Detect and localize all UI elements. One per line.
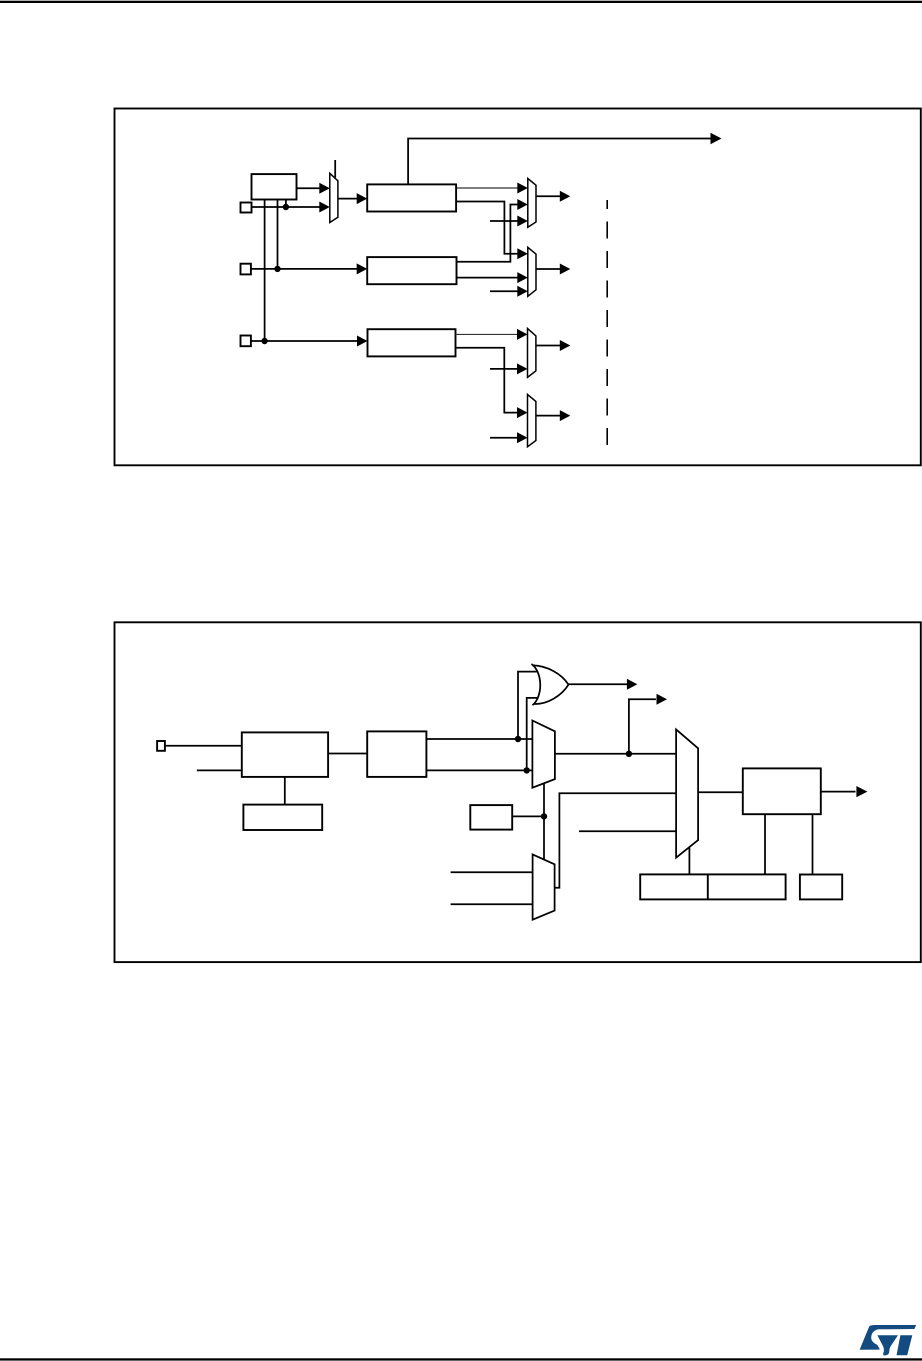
junction dot mux A output branch	[626, 751, 632, 757]
mux M2	[528, 247, 536, 296]
wire mux M2 output	[536, 268, 561, 270]
wire mux C output to box E	[698, 791, 743, 793]
figure 2 frame	[115, 622, 921, 962]
arrowhead M3 in1	[517, 329, 528, 340]
arrowhead M4 in1	[517, 407, 528, 418]
wire box DIV1 out B down to mux M2 input 1	[456, 202, 518, 254]
box F divider	[707, 874, 709, 899]
junction dot OR in2	[524, 767, 530, 773]
arrowhead M4 out	[560, 410, 571, 421]
arrowhead OR output	[627, 679, 638, 690]
wire stub to mux B input 2	[451, 903, 533, 905]
box E	[743, 768, 821, 814]
arrowhead M3 out	[560, 340, 571, 351]
wire osc bottom to OSC1 junction	[285, 200, 287, 208]
arrowhead M0 in2	[319, 202, 330, 213]
wire stub to mux M2 input 3	[490, 290, 518, 292]
wire box E output arrow	[821, 791, 856, 793]
mux M4	[528, 394, 536, 446]
OR gate U1 input arc	[532, 664, 541, 705]
junction dot select line	[541, 813, 547, 819]
arrowhead M0 out	[357, 193, 368, 204]
wire mux A output to mux C input 1	[555, 753, 676, 755]
wire pin EXTCLK row to box DIV3	[251, 340, 358, 342]
arrowhead M2 in1	[517, 248, 528, 259]
wire mux M3 output	[536, 345, 561, 347]
wire box E bottom to box G	[812, 814, 814, 874]
wire mux C bottom to box F	[688, 848, 690, 875]
wire stub to mux C input 3	[579, 830, 676, 832]
wire box E bottom to box F	[764, 814, 766, 874]
wire mux M0 select	[334, 160, 336, 178]
ST logo	[860, 1325, 917, 1356]
wire box DIV2 out B to mux M2 input 2	[457, 277, 519, 279]
wire box A bottom to box B	[284, 777, 286, 805]
wire osc bottom to OSC2 junction	[277, 200, 279, 269]
box C divider	[367, 731, 426, 777]
wire OR gate input 2 riser	[527, 698, 538, 771]
wire box DIV3 out A to mux M3 input 1	[456, 333, 518, 335]
arrowhead top long arrow	[711, 133, 722, 145]
wire stub to mux M1 input 3	[490, 220, 518, 222]
junction dot OR in1	[515, 736, 521, 742]
box DIV2	[367, 257, 456, 284]
wire riser from box DIV1 top	[408, 139, 711, 185]
wire mux A select down to mux B	[543, 783, 545, 859]
dashed boundary line	[606, 200, 608, 446]
arrowhead branch output	[657, 694, 668, 705]
ST logo S band and left stroke	[860, 1325, 917, 1350]
wire box DIV3 out B down to mux M4 input 1	[456, 348, 518, 413]
arrowhead DIV2 in	[357, 263, 368, 274]
arrowhead M0 in1	[319, 183, 330, 194]
pin CLKIN	[157, 741, 165, 751]
arrowhead M4 in2	[517, 432, 528, 443]
box B	[243, 805, 322, 830]
wire stub to mux M3 input 2	[490, 368, 518, 370]
wire osc output to mux M0 input 1	[297, 187, 321, 189]
mux M0	[330, 173, 338, 222]
box D	[470, 805, 512, 830]
wire stub to mux M4 input 2	[490, 437, 518, 439]
junction dot OSC1	[283, 204, 289, 210]
arrowhead M2 in2	[517, 272, 528, 283]
wire box DIV2 out A up to mux M1 input 2	[457, 205, 519, 262]
wire pin OSC2 row to box DIV2	[251, 268, 358, 270]
wire pin OSC1 row to mux M0 input 2	[252, 206, 321, 208]
mux M1	[528, 179, 536, 228]
wire box DIV1 out A to mux M1 input 1	[456, 187, 518, 189]
mux B	[533, 854, 555, 919]
box DIV1	[367, 184, 456, 211]
wire osc bottom to EXTCLK junction	[264, 200, 266, 342]
wire branch arrow from mux A output	[629, 699, 656, 754]
figure 1 frame	[115, 109, 921, 466]
mux M3	[528, 328, 536, 377]
arrowhead M1 in2	[517, 199, 528, 210]
wire mux M4 output	[536, 415, 561, 417]
wire box A output to box C	[328, 753, 367, 755]
arrowhead M1 in3	[517, 216, 528, 227]
ST logo S lower bowl	[877, 1335, 898, 1355]
arrowhead box E output	[856, 786, 867, 797]
wire box C out 1 to mux A input 1	[426, 738, 532, 740]
wire box C out 2 to mux A input 2	[426, 769, 532, 771]
pin OSC2	[241, 264, 251, 275]
mux A	[532, 721, 555, 788]
arrowhead M3 in2	[517, 363, 528, 374]
ST logo T stem	[897, 1335, 913, 1355]
wire box D output to select line	[512, 815, 544, 817]
OR gate U1 body	[532, 665, 568, 704]
pin OSC1	[241, 203, 252, 213]
arrowhead M1 in1	[517, 183, 528, 194]
wire OR gate output arrow	[569, 683, 628, 685]
pin EXTCLK	[241, 336, 251, 347]
wire stub to mux B input 1	[451, 871, 533, 873]
junction dot EXTCLK	[261, 338, 267, 344]
wire mux B output up to mux C input 2	[555, 793, 677, 888]
box F	[640, 874, 785, 899]
wire mux M1 output	[536, 195, 561, 197]
arrowhead M2 in3	[517, 286, 528, 297]
wire mux M0 output to box DIV1	[338, 198, 358, 200]
arrowhead DIV3 in	[357, 336, 368, 347]
box G	[800, 875, 842, 900]
arrowhead M2 out	[560, 264, 571, 275]
wire pin to box A	[165, 745, 242, 747]
arrowhead M1 out	[560, 191, 571, 202]
page bottom rule	[0, 1358, 922, 1360]
oscillator box OSC	[252, 174, 297, 199]
box A oscillator	[242, 732, 328, 777]
wire stub input to box A	[197, 769, 242, 771]
page top rule	[0, 1, 922, 3]
wire OR gate input 1 riser	[518, 672, 537, 739]
box DIV3	[368, 329, 456, 356]
mux C	[676, 729, 698, 857]
junction dot OSC2	[274, 266, 280, 272]
